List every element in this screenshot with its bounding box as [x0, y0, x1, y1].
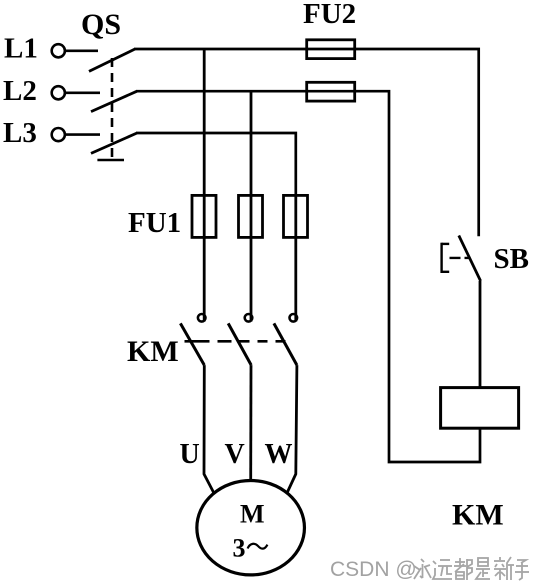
wire motor lead W	[287, 365, 297, 493]
button SB link dashed	[450, 257, 471, 259]
contact KM hook B	[245, 314, 253, 322]
button SB blade	[459, 236, 481, 282]
fuse FU2b	[307, 82, 355, 101]
wire phase A drop	[203, 49, 206, 195]
terminal L3	[52, 128, 65, 141]
fuse FU1a	[192, 195, 216, 237]
contact KM linkage dashed	[185, 340, 291, 343]
motor M circle	[197, 481, 305, 575]
wire phase B drop	[250, 91, 253, 195]
svg-text:QS: QS	[81, 8, 121, 41]
wire L1 bus to SB drop	[134, 49, 479, 236]
wire phase A to contact	[203, 237, 206, 321]
wire L1 input	[65, 49, 98, 52]
switch QS blade L3	[91, 133, 137, 153]
contact KM hook C	[290, 314, 298, 322]
contact KM blade B	[228, 323, 251, 365]
wire motor lead U	[204, 365, 214, 493]
watermark char 都	[454, 558, 472, 580]
wire SB to coil	[479, 281, 482, 388]
watermark char 新	[494, 557, 514, 580]
wire motor lead V	[249, 365, 252, 480]
svg-text:V: V	[225, 439, 245, 470]
wire L2 bus, left control drop and bottom return to coil	[136, 91, 480, 462]
svg-text:KM: KM	[127, 335, 179, 368]
fuse FU1b	[239, 195, 263, 237]
wire L2 input	[65, 92, 100, 95]
watermark CSDN	[330, 558, 417, 581]
fuse FU2a	[307, 40, 355, 59]
button SB actuator	[442, 243, 450, 273]
wire L3 bus and drop	[136, 133, 296, 195]
svg-text:SB: SB	[494, 243, 529, 275]
svg-text:M: M	[240, 500, 265, 529]
svg-text:3: 3	[233, 534, 246, 563]
svg-text:W: W	[265, 439, 293, 470]
svg-text:L1: L1	[4, 33, 38, 65]
watermark char 远	[433, 560, 452, 579]
wire L3 input	[65, 133, 100, 136]
svg-text:CSDN @: CSDN @	[330, 558, 417, 581]
switch QS blade L1	[89, 49, 135, 71]
terminal L1	[52, 44, 65, 57]
wire phase B to contact	[250, 237, 253, 321]
watermark char 手	[515, 560, 529, 580]
coil KM	[441, 388, 519, 429]
svg-text:FU1: FU1	[128, 207, 181, 239]
switch QS blade L2	[91, 91, 137, 111]
svg-text:KM: KM	[452, 499, 504, 532]
wire phase C to contact	[294, 237, 297, 321]
watermark char 是	[476, 558, 490, 579]
svg-text:L3: L3	[3, 117, 37, 149]
switch QS linkage dashed	[111, 58, 114, 158]
svg-text:U: U	[180, 439, 200, 470]
fuse FU1c	[284, 195, 308, 237]
terminal L2	[52, 86, 65, 99]
contact KM hook A	[198, 314, 206, 322]
svg-text:L2: L2	[3, 75, 37, 107]
svg-text:FU2: FU2	[303, 0, 356, 30]
switch QS handle bar	[97, 159, 124, 162]
contact KM blade C	[274, 323, 297, 365]
watermark char 永	[414, 559, 431, 579]
contact KM blade A	[180, 323, 204, 365]
